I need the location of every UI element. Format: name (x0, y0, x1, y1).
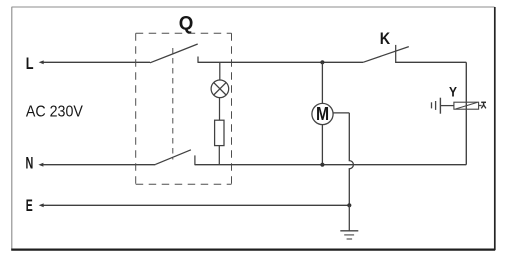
resistor (215, 120, 224, 145)
wire Q pole L to switch K (198, 61, 363, 63)
svg-text:Q: Q (179, 13, 194, 34)
mechanical link dashed line (172, 48, 174, 160)
actuator Y body (454, 102, 479, 109)
wire K to right corner (396, 61, 467, 63)
dashed enclosure Q (136, 33, 232, 184)
svg-text:N: N (26, 155, 34, 173)
node motor on N (320, 163, 324, 167)
wire right vertical (465, 62, 467, 164)
node earth junction on E (347, 203, 351, 207)
arrow on N line (38, 163, 43, 167)
svg-text:Y: Y (449, 84, 458, 100)
switch Q pole L contact tick (197, 57, 199, 63)
lamp (211, 80, 229, 98)
wire E line to earth junction (44, 204, 350, 206)
svg-text:L: L (26, 55, 34, 73)
wire lamp to resistor (219, 98, 221, 121)
nozzle mark (481, 102, 486, 108)
wire resistor to N line (218, 146, 220, 165)
ground (340, 231, 358, 239)
wire motor to N (321, 125, 323, 165)
wire L to motor (321, 62, 323, 103)
actuator Y diagonal (456, 102, 478, 109)
wire E junction to ground (348, 205, 350, 230)
wire N to switch Q (43, 164, 155, 166)
arrow on E line (39, 203, 44, 207)
node motor tap on L (320, 60, 324, 64)
switch K blade (363, 47, 409, 63)
lamp branch tap wire (219, 62, 221, 80)
svg-text:M: M (316, 103, 329, 124)
wire L to switch Q (44, 61, 151, 63)
switch Q pole L blade (150, 44, 198, 63)
arrow on L line (39, 60, 44, 64)
switch Q pole N blade (155, 150, 191, 165)
svg-text:E: E (26, 197, 33, 215)
wire Y body to nozzle (479, 105, 482, 107)
svg-text:AC 230V: AC 230V (26, 104, 83, 121)
igniter electrode bars (432, 98, 441, 114)
motor M (312, 103, 333, 124)
switch Q pole N contact tick (194, 155, 196, 165)
wire Q pole N to right corner (195, 164, 466, 166)
switch K contact tick (395, 45, 397, 63)
wire electrode to Y body (440, 105, 454, 107)
wire motor side branch horizontal (333, 112, 349, 114)
wire side branch down with hop over N (349, 113, 353, 205)
svg-text:K: K (380, 30, 390, 48)
